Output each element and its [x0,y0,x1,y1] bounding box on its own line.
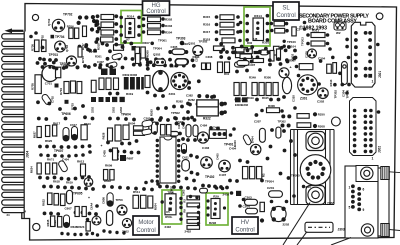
diode D408 (diag) [242,134,252,146]
svg-text:R313: R313 [329,79,333,86]
resistor R737 [78,47,82,57]
optocoupler U7 [125,19,135,38]
svg-text:R306: R306 [264,76,271,80]
svg-text:R311: R311 [312,29,319,33]
IC Z606 (DIP) [156,137,181,183]
resistor F [218,62,223,73]
capacitor C618 half [64,215,70,228]
svg-text:R301: R301 [95,54,102,58]
smd pads E [101,69,108,76]
svg-text:R649: R649 [104,179,111,183]
svg-text:TP301: TP301 [158,39,167,43]
label plate (dashed) [305,222,333,232]
svg-text:3302: 3302 [112,107,116,113]
dark resistor bank [124,77,129,90]
svg-text:R303: R303 [165,24,173,28]
resistor H3b [110,170,114,181]
svg-text:SL: SL [282,6,290,12]
svg-text:C310: C310 [292,95,296,102]
svg-text:C302: C302 [317,100,325,104]
svg-text:TP606: TP606 [61,112,71,116]
callout box Motor Control [133,216,159,235]
resistor E mid [145,76,150,88]
svg-text:1: 1 [372,157,374,161]
svg-text:1: 1 [349,186,351,190]
transistor C404big [197,132,208,143]
capacitor C502 [200,188,208,193]
pads right of R322 [219,102,224,116]
pad top right [303,21,307,31]
svg-text:C203: C203 [245,195,253,199]
transistor Q702 [52,19,64,31]
svg-text:R703: R703 [71,103,75,110]
leader line right bottom [389,230,400,231]
svg-text:R615: R615 [46,219,50,226]
svg-text:9: 9 [363,208,365,212]
svg-text:R315: R315 [203,15,211,19]
resistor R703c [77,82,82,94]
transistor Q306 (flat) [155,59,166,66]
capacitor C310 (electrolytic) [282,77,291,93]
capacitor above IC [170,132,179,136]
pad right of J302 [377,110,381,114]
svg-text:Motor: Motor [138,220,153,226]
svg-text:TP702: TP702 [63,13,73,17]
metal can Z302 [171,72,188,89]
svg-text:R6?1: R6?1 [47,158,54,162]
pads J right [86,204,100,223]
svg-text:R309 R306: R309 R306 [123,73,138,77]
svg-text:+: + [88,196,90,200]
svg-text:HV: HV [241,220,249,226]
resistor J right pair [75,207,79,217]
resistor R210 [297,114,309,119]
svg-text:R314: R314 [254,14,262,18]
pads around U7 [119,16,140,37]
svg-text:R315: R315 [262,96,269,100]
svg-text:TP402: TP402 [205,175,215,179]
capacitor C303c [142,120,153,128]
highlight box HV group [206,193,228,225]
resistor R326 [244,49,252,54]
capacitor C306 [175,59,189,65]
resistor R324v [270,51,274,62]
svg-text:R609: R609 [105,164,113,168]
svg-text:R308: R308 [146,50,150,57]
svg-text:2202: 2202 [283,222,290,226]
svg-text:TP50: TP50 [116,198,124,202]
svg-text:R403: R403 [233,140,237,147]
svg-text:R319: R319 [126,92,134,96]
pads under row F [235,95,286,101]
svg-text:C701: C701 [45,81,53,85]
J303 D-sub pins [351,184,361,211]
resistor R327 [274,46,280,55]
svg-text:W2: W2 [336,31,341,35]
svg-text:R312: R312 [94,20,98,27]
capacitor C313 (+) [279,68,289,78]
svg-text:R322: R322 [203,117,211,121]
resistor J bottom [86,222,90,232]
resistor R703a [64,82,69,94]
svg-text:C304: C304 [170,65,177,69]
svg-text:C407: C407 [219,173,227,177]
svg-text:R306: R306 [268,104,275,108]
resistor R312v [333,63,337,74]
resistor H1 [108,128,113,141]
pads F bottom [260,106,297,113]
diode CR703 [108,61,118,68]
svg-text:R620: R620 [45,139,53,143]
pads J bottom [60,229,125,236]
capacitor C305 [172,49,185,55]
diode CR702 [112,53,123,60]
resistor H3a [104,170,108,181]
metal can Z301 [298,75,318,95]
svg-text:1: 1 [372,80,374,84]
smd pad L [236,191,241,196]
svg-text:24: 24 [7,213,11,217]
relay Z402 [209,130,226,139]
pads below C304 [333,83,351,87]
svg-text:C409: C409 [182,122,186,129]
optocoupler R292 [211,199,220,219]
resistor R310 [311,41,325,46]
solenoid screw bottom [306,186,325,205]
resistor R736a [35,40,40,52]
svg-text:R30: R30 [247,41,253,45]
svg-text:Control: Control [136,228,155,234]
pad left [29,31,38,38]
transistor Q405 [201,157,213,169]
resistor trio E [99,78,104,90]
svg-text:C607: C607 [65,206,73,210]
svg-text:Q301: Q301 [188,41,196,45]
callout box HV Control [232,217,258,234]
optocoupler U8 [253,18,264,41]
capacitor C701 (large) [42,66,58,82]
J303 pin bump bottom [381,224,390,237]
svg-text:+: + [101,144,103,148]
test pad sq [132,46,137,51]
capacitor C307 [235,62,246,67]
optocoupler R501 [165,194,176,215]
svg-text:R622: R622 [42,199,46,206]
resistor R311 [311,33,325,38]
svg-text:C305: C305 [305,51,309,58]
svg-text:R9: R9 [183,209,187,213]
pads band F [219,42,296,62]
resistor R320t [275,28,285,33]
resistor R705 (power) [35,75,41,94]
resistor bank right of green3 [187,196,200,200]
pad right of Z402 [229,127,236,137]
svg-text:R704: R704 [59,88,63,95]
mounting hole top-left [32,14,38,20]
smd squares right D [91,97,96,102]
svg-text:2402: 2402 [223,192,230,196]
svg-text:TP303: TP303 [301,37,305,46]
svg-text:J303: J303 [338,228,345,232]
highlight box Motor group [162,190,182,224]
resistor R708 [75,28,79,39]
mounting hole mid-right [332,117,341,126]
diode D301 [176,59,188,65]
pads J toprow [42,185,95,191]
resistor R306b [267,108,280,113]
solenoid bracket rails [291,130,335,205]
pads R311 [306,33,329,37]
svg-text:TP302: TP302 [199,39,208,43]
svg-text:R618: R618 [53,180,60,184]
capacitor C607h [186,125,191,138]
test pads F mid [210,95,258,117]
svg-text:U8: U8 [254,37,258,41]
svg-text:C484: C484 [200,124,208,128]
svg-text:C6A4: C6A4 [90,202,94,210]
pads H row1 [106,139,140,154]
pads I [228,128,297,183]
highlight box SL group [244,7,270,46]
svg-text:R613: R613 [77,160,85,164]
resistor R604a [134,126,145,130]
resistor R615 [51,216,55,227]
svg-text:TP607: TP607 [54,149,64,153]
test point R704 [55,84,59,88]
svg-text:Control: Control [276,13,295,19]
svg-text:R504: R504 [154,203,158,210]
svg-text:2206: 2206 [327,202,334,206]
svg-text:R31: R31 [224,72,230,76]
resistor R323h [253,59,264,63]
svg-text:J302: J302 [378,146,382,153]
resistor G2 [37,163,41,174]
svg-text:C207: C207 [254,120,261,124]
resistor R310c [236,48,248,52]
transistor Q407 [219,160,231,172]
resistor trio K [133,195,139,208]
transistor Q409 [251,144,261,154]
capacitor C606k [107,193,113,207]
capacitor C305i [276,127,281,138]
svg-text:2402: 2402 [185,230,192,234]
svg-text:J301: J301 [378,71,382,78]
pads near TP702 [77,15,102,32]
resistor R710 [56,67,61,78]
transistor Q703 [55,41,66,52]
resistor R703b [71,81,76,93]
svg-text:R307: R307 [143,41,151,45]
pads near SL [270,22,289,33]
svg-text:R638R623: R638R623 [71,225,85,229]
svg-text:R316: R316 [203,23,211,27]
pads row B-bottom [99,57,196,68]
svg-text:C308: C308 [206,55,213,59]
pad near HV [260,218,264,222]
pads row C mid [219,49,297,60]
svg-text:C702: C702 [51,96,55,103]
resistor right D [91,80,96,92]
resistor R317 [220,30,234,35]
svg-text:C611: C611 [182,156,189,160]
svg-text:TP303: TP303 [176,37,186,41]
svg-text:2402: 2402 [165,225,172,229]
power resistor pair H [115,125,121,141]
svg-text:R263: R263 [150,109,154,116]
connector J302 [350,98,377,156]
svg-text:C307: C307 [97,60,104,64]
pads in HV group [206,199,226,216]
resistor R730 [136,54,141,64]
transistor Q705 [67,56,77,66]
pads L top [215,186,246,208]
power resistor R322 [197,100,219,116]
pads J row2 [43,211,98,216]
solenoid screw top [306,132,325,151]
svg-text:R703: R703 [81,56,85,63]
pin-1 arrow marker [11,30,24,32]
svg-text:Q302: Q302 [153,53,161,57]
svg-text:TP502: TP502 [171,111,180,115]
svg-text:R319: R319 [247,96,254,100]
capacitor C204 [246,208,258,214]
callout box HG Control [143,1,170,15]
resistor R304 [148,30,161,35]
pads row A-bottom [42,45,97,62]
capacitor C203 [245,199,258,205]
svg-text:R687: R687 [127,157,134,161]
pads L right [270,194,296,203]
svg-text:E303E302: E303E302 [235,103,249,107]
svg-text:R208: R208 [318,124,325,128]
resistor R330 [101,30,114,35]
svg-text:TP704: TP704 [55,35,65,39]
comb spine line [23,32,25,219]
svg-text:TP100: TP100 [287,40,296,44]
pads right of resistors [236,15,242,42]
resistor R706 [69,28,73,39]
resistor R329 [101,22,114,28]
svg-text:C405: C405 [216,153,220,160]
transistor Q303 [318,88,329,99]
svg-text:J304: J304 [26,151,30,158]
pads above R322 [197,94,216,99]
resistor R511b [187,226,200,230]
pad right of J301 [376,43,380,47]
resistor H mid [113,148,118,160]
svg-text:R624: R624 [30,166,34,173]
svg-text:C201: C201 [267,186,275,190]
highlight box HG group [121,11,142,44]
svg-text:R613: R613 [84,122,91,126]
svg-text:Z602: Z602 [122,229,129,233]
svg-text:C313: C313 [195,55,199,62]
resistor R319t [274,21,285,26]
resistor R315 [220,15,234,20]
transistor Q304 [308,49,317,58]
svg-text:R317: R317 [203,30,211,34]
resistor R321h [240,54,252,59]
leader line 4 [297,232,307,245]
mounting hole bottom-left [33,223,40,230]
svg-text:Control: Control [146,9,165,15]
svg-text:R627: R627 [33,131,37,138]
svg-text:Q703: Q703 [65,45,69,52]
capacitor C605j [67,190,73,204]
J303 screw top [356,166,378,182]
svg-text:C503: C503 [182,189,186,196]
pad TP303 [180,41,185,46]
svg-text:R604: R604 [128,122,136,126]
transistor Q610 [84,178,93,187]
resistor R320h [214,46,225,51]
resistor R318 [222,38,235,43]
capacitor C201 [269,191,283,198]
svg-text:R511: R511 [133,190,140,194]
smd pads F [235,97,241,102]
resistor R305 [135,47,140,58]
svg-text:3202: 3202 [91,107,95,113]
J303 screw bottom [361,224,373,236]
capacitor C702 (diag) [41,93,52,105]
resistor trio G1 [37,127,41,138]
svg-text:6: 6 [363,188,365,192]
edge connector fingers J304 [2,34,25,213]
test point TP704 [51,35,55,39]
label R208m [302,185,305,188]
pads R310 [306,42,332,51]
svg-text:BOARD COMP ASSY: BOARD COMP ASSY [308,19,357,25]
resistor R604b [134,131,145,135]
capacitor C302c [142,129,152,136]
svg-text:5: 5 [349,206,351,210]
pads near Z301 [295,56,351,95]
pads left of resistors [96,14,119,41]
capacitor below C606k [107,211,113,226]
leader line 3 [331,238,351,245]
solenoid coil can Z201 [300,155,331,186]
svg-text:U5: U5 [166,210,170,214]
svg-text:R349: R349 [249,76,256,80]
J303 pin bump top [381,167,390,180]
svg-text:R314: R314 [127,14,135,18]
resistor R308 [141,47,146,58]
pot can 2202 [271,206,286,221]
svg-text:Control: Control [235,227,254,233]
callout box SL Control [273,2,299,20]
pads tile D [36,61,97,121]
leader line right [389,171,400,174]
svg-text:TP703: TP703 [49,53,59,57]
resistor trio J [48,193,53,205]
pads row E bottom [108,102,199,122]
pads left of J301 [345,38,349,49]
pads G row3 [38,175,91,181]
pads right H [181,137,199,182]
svg-text:R302: R302 [165,18,173,22]
resistor R303 [148,24,161,29]
svg-text:R628: R628 [102,132,106,139]
svg-text:R250: R250 [318,113,325,117]
pads band D [38,40,133,69]
svg-text:R262: R262 [176,99,183,103]
smd D pad [120,155,126,161]
svg-text:R304: R304 [165,31,173,35]
resistor R311c [236,53,248,57]
resistor R311v [327,64,332,73]
pads around U8 [245,14,269,42]
capacitor C308 [260,50,269,55]
